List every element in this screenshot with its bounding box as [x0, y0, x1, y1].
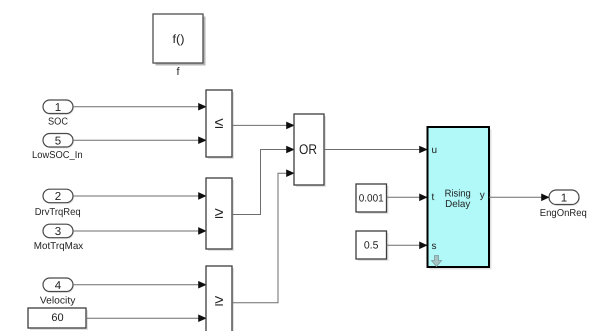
subsystem Rising Delay [428, 127, 492, 270]
wire OR to Rising Delay u [324, 149, 427, 151]
wire Velocity to RelOp3 in1 [73, 284, 206, 286]
svg-text:Rising: Rising [445, 188, 471, 199]
inport 5 LowSOC_In [32, 134, 83, 162]
wire MotTrqMax to RelOp2 in2 [73, 230, 206, 232]
wire RelOp1 to OR in1 [232, 124, 294, 126]
svg-text:≤: ≤ [215, 115, 224, 132]
inport 4 Velocity [40, 278, 76, 306]
inport 2 DrvTrqReq [35, 189, 81, 218]
svg-text:EngOnReq: EngOnReq [540, 208, 587, 219]
svg-text:f(): f() [173, 32, 185, 46]
wire constant 60 to RelOp3 in2 [86, 317, 206, 319]
constant 0.001 [356, 184, 389, 214]
wire SOC to RelOp1 in1 [73, 106, 206, 108]
svg-text:5: 5 [55, 136, 61, 148]
logical operator OR [294, 114, 326, 187]
relational operator RelOp2 >= [206, 178, 234, 251]
wire DrvTrqReq to RelOp2 in1 [73, 195, 206, 197]
svg-text:0.5: 0.5 [364, 240, 379, 252]
wire constant 0.5 to Rising Delay s [387, 244, 428, 246]
svg-text:≥: ≥ [215, 293, 224, 310]
svg-text:s: s [432, 241, 437, 252]
svg-text:DrvTrqReq: DrvTrqReq [35, 207, 81, 218]
relational operator RelOp1 <= [206, 90, 234, 159]
wire Rising Delay y to outport EngOnReq [489, 196, 549, 198]
inport 1 SOC [43, 100, 74, 127]
outport 1 EngOnReq [540, 190, 587, 219]
wire constant 0.001 to Rising Delay t [387, 196, 428, 198]
svg-text:OR: OR [299, 141, 317, 157]
svg-text:0.001: 0.001 [359, 193, 384, 205]
svg-text:Delay: Delay [445, 199, 470, 210]
svg-text:≥: ≥ [215, 205, 224, 222]
svg-text:LowSOC_In: LowSOC_In [32, 150, 83, 161]
svg-text:60: 60 [51, 312, 63, 324]
badge arrow (library link) inside Rising Delay [432, 256, 442, 267]
svg-text:3: 3 [55, 226, 61, 238]
wire LowSOC_In to RelOp1 in2 [73, 139, 206, 141]
wire RelOp2 to OR in2 [232, 150, 294, 215]
svg-text:1: 1 [561, 193, 567, 205]
svg-text:u: u [432, 145, 438, 156]
inport 3 MotTrqMax [34, 224, 84, 252]
svg-text:4: 4 [55, 280, 62, 292]
svg-text:1: 1 [55, 102, 61, 114]
svg-text:Velocity: Velocity [40, 295, 76, 306]
wire RelOp3 to OR in3 [232, 173, 294, 303]
subsystem block f (function caller) [153, 14, 206, 78]
constant 60 [28, 308, 88, 330]
svg-text:SOC: SOC [48, 116, 68, 127]
svg-text:y: y [480, 190, 485, 201]
constant 0.5 [356, 231, 389, 261]
svg-text:2: 2 [55, 191, 61, 203]
svg-text:f: f [176, 66, 180, 78]
svg-text:t: t [432, 192, 435, 203]
relational operator RelOp3 >= [206, 266, 234, 331]
svg-text:MotTrqMax: MotTrqMax [34, 241, 84, 252]
